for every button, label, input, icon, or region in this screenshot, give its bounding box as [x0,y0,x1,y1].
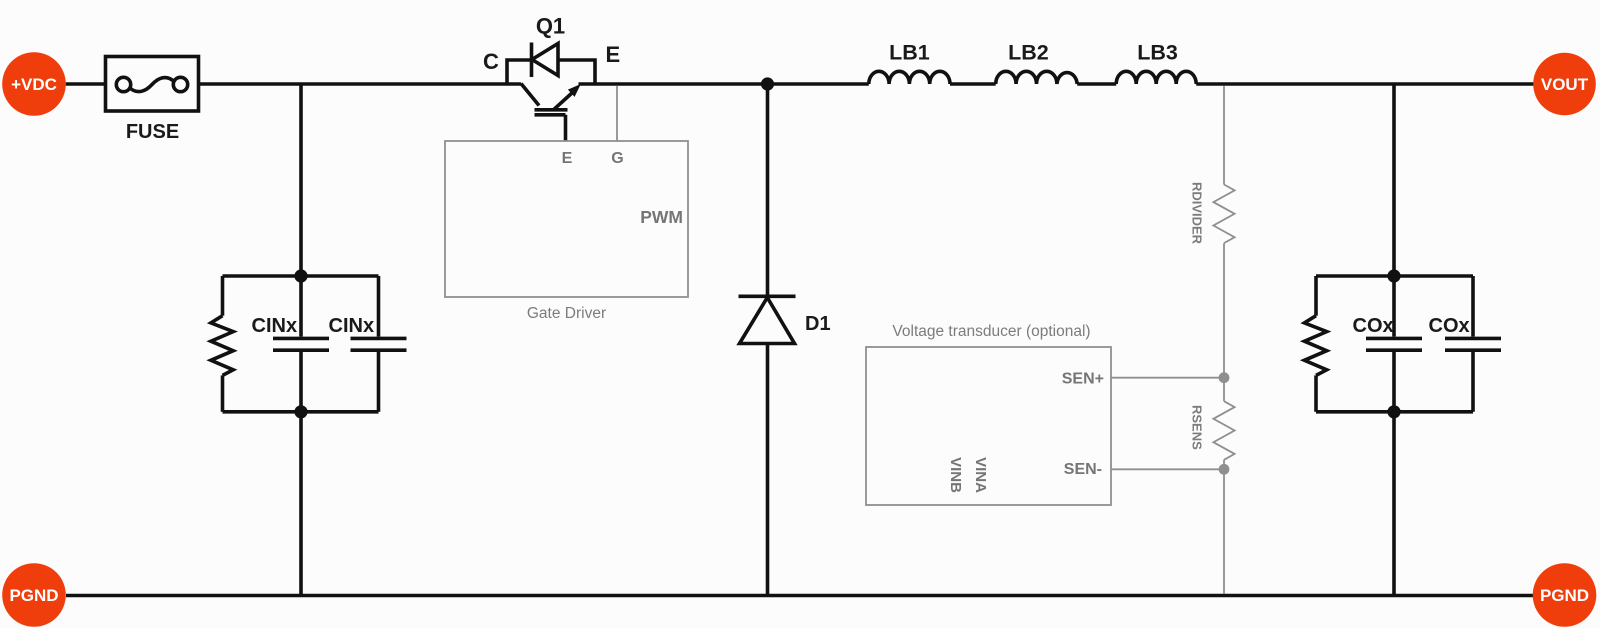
IGBT collector diagonal [521,84,539,106]
resistor input bleeder [211,276,233,412]
wire gate driver G sense [616,86,618,141]
svg-text:RDIVIDER: RDIVIDER [1190,182,1205,245]
node input cap top [294,269,307,282]
inductor LB2 [996,71,1077,84]
resistor output bleeder [1304,276,1326,412]
divider chain wire top [1223,86,1225,185]
wire COx bottom to ground rail [1392,412,1396,596]
svg-text:PGND: PGND [9,586,58,605]
wire Q1 emitter to switch node [579,82,869,86]
terminal +VDC [2,52,66,116]
svg-text:D1: D1 [805,313,831,335]
node output cap top [1387,269,1400,282]
capacitor COx (second) [1445,276,1501,412]
IGBT gate bar [535,113,566,117]
wire input node down [299,84,303,276]
svg-text:LB1: LB1 [889,41,930,65]
wire COx bottom rail [1316,410,1473,414]
node output cap bottom [1387,405,1400,418]
wire CIN top rail [223,274,379,278]
wire fuse to Q1 [199,82,522,86]
svg-text:SEN+: SEN+ [1062,371,1104,388]
svg-text:E: E [562,150,573,167]
node SEN+ [1219,372,1230,383]
wire CIN bottom to ground rail [299,412,303,596]
wire CIN bottom rail [223,410,379,414]
wire LB3 to VOUT [1196,82,1533,86]
diode triangle [532,44,558,76]
resistor RSENS [1213,401,1234,460]
diode D1 [739,296,796,343]
svg-text:E: E [606,42,621,67]
svg-text:+VDC: +VDC [11,75,57,94]
IGBT gate lead [564,115,568,141]
terminal PGND left [2,563,66,627]
gate driver box [445,141,688,297]
svg-text:SEN-: SEN- [1064,461,1102,478]
IGBT emitter arrow [568,84,581,97]
svg-text:LB3: LB3 [1137,41,1178,65]
resistor RDIVIDER [1213,185,1234,244]
svg-text:G: G [611,150,623,167]
IGBT emitter diagonal [553,93,573,111]
svg-text:C: C [483,49,499,74]
svg-text:FUSE: FUSE [126,121,179,143]
wire RDIVIDER to SEN+ [1223,243,1225,378]
wire VDC to fuse [66,82,106,86]
ground rail [66,594,1534,598]
wire SEN+ to RSENS [1223,378,1225,402]
capacitor CINx (second) [351,276,407,412]
svg-text:Gate Driver: Gate Driver [527,305,606,322]
wire SEN+ [1111,377,1224,379]
svg-text:VOUT: VOUT [1541,75,1589,94]
svg-text:COx: COx [1353,315,1394,337]
wire LB2 to LB3 [1077,82,1116,86]
svg-text:RSENS: RSENS [1190,405,1205,450]
inductor LB1 [869,71,950,84]
IGBT body bar [535,108,568,112]
svg-text:PGND: PGND [1540,586,1589,605]
fuse F1 [106,57,199,112]
svg-text:VINB: VINB [947,457,964,493]
diode cathode bar [530,43,534,78]
transistor Q1 (IGBT with antiparallel diode) [507,43,595,142]
svg-text:Q1: Q1 [536,14,565,39]
wire COx top rail [1316,274,1473,278]
svg-text:COx: COx [1429,315,1470,337]
terminal PGND right [1533,563,1597,627]
voltage transducer box [866,347,1111,505]
wire SEN- [1111,468,1224,470]
wire output node down [1392,84,1396,276]
capacitor COx (first) [1366,276,1422,412]
node switch [761,77,774,90]
diode loop wire [507,60,595,84]
terminal VOUT [1533,53,1596,116]
capacitor CINx (first) [273,276,329,412]
svg-text:LB2: LB2 [1008,41,1049,65]
node SEN- [1219,464,1230,475]
svg-text:CINx: CINx [252,315,298,337]
wire RSENS to ground rail [1223,460,1225,594]
node input cap bottom [294,405,307,418]
svg-text:CINx: CINx [329,315,375,337]
svg-text:Voltage transducer (optional): Voltage transducer (optional) [892,323,1090,340]
inductor LB3 [1116,71,1196,84]
svg-text:PWM: PWM [640,207,683,227]
wire switch node down [766,84,770,596]
wire LB1 to LB2 [950,82,996,86]
svg-text:VINA: VINA [972,457,989,493]
